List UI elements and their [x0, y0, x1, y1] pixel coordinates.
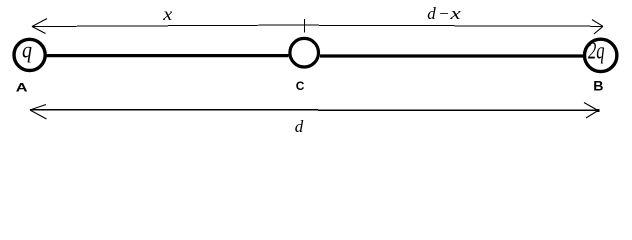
- wire A to C: [47, 54, 289, 57]
- junction dot at right tip of d dimension: [597, 109, 600, 112]
- svg-text:−: −: [438, 4, 449, 23]
- charge B circle: [585, 39, 617, 71]
- arrowhead left of x dimension: [32, 19, 47, 34]
- svg-text:q: q: [22, 37, 32, 62]
- svg-text:x: x: [449, 4, 461, 23]
- point C circle: [290, 38, 319, 67]
- arrowheads of d dimension: [30, 103, 598, 120]
- svg-text:A: A: [16, 81, 28, 95]
- svg-text:2q: 2q: [588, 39, 605, 65]
- wire C to B: [320, 54, 583, 57]
- dimension line d (A to B): [30, 109, 598, 111]
- svg-text:x: x: [162, 4, 172, 24]
- svg-text:d: d: [295, 117, 304, 136]
- arrowhead right of d-x dimension: [592, 20, 603, 34]
- svg-text:C: C: [296, 79, 305, 93]
- dimension line x (A to C): [32, 25, 305, 27]
- dimension line d-x (C to B): [305, 25, 604, 26]
- charge A circle: [14, 39, 45, 70]
- tick at C: [304, 19, 306, 33]
- svg-text:B: B: [593, 79, 603, 94]
- svg-text:d: d: [427, 4, 436, 23]
